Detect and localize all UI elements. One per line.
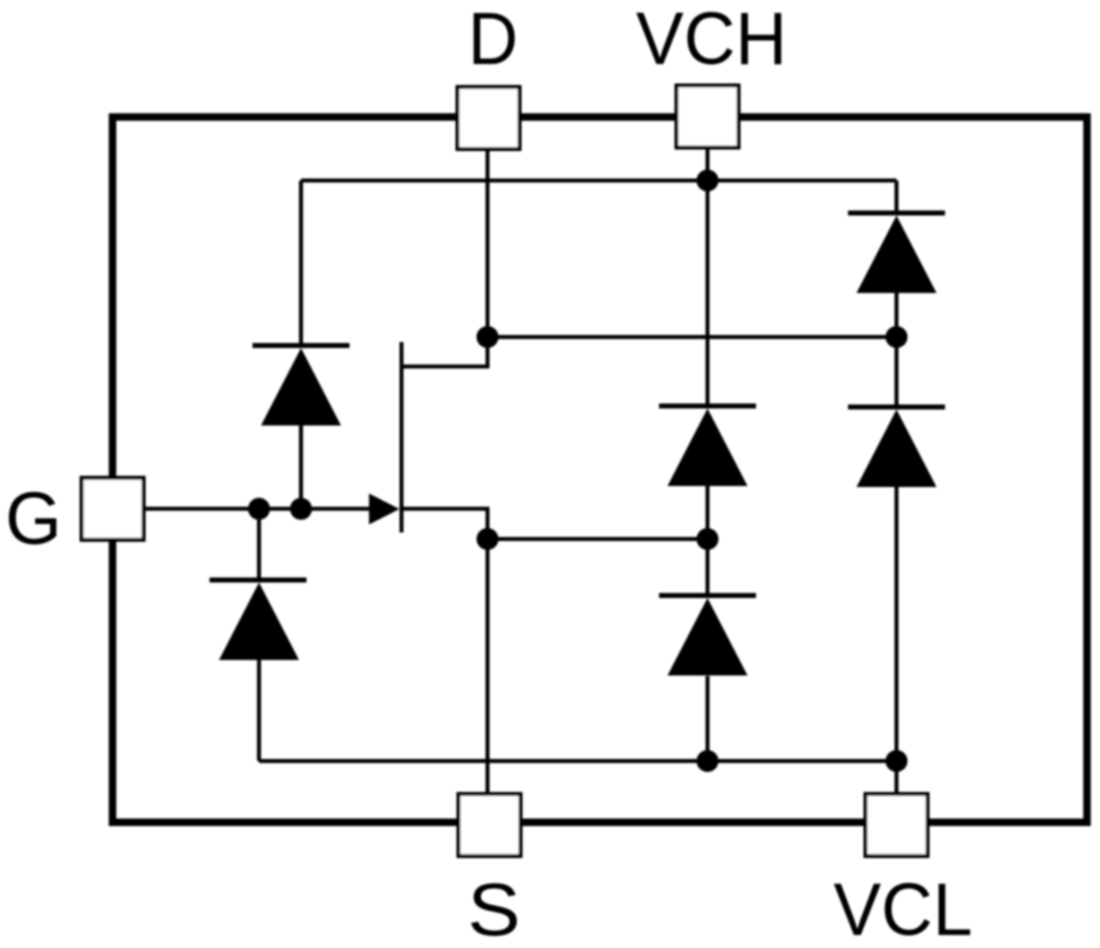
wire: source node down to diode D4 cathode [706,539,710,596]
wire: diode D6 anode down to VCL rail and VCL pin [895,487,899,794]
diode D3 (source to VCH, upper) [659,406,756,486]
wire: D pin stub down to drain node [486,149,490,337]
wire: VCH rail down to diode D5 cathode (right drop) [895,181,899,214]
svg-text:VCH: VCH [636,0,787,80]
wire: drain horizontal rail y=337 [488,335,897,339]
wire: diode D5 anode down through node to diode D6 cathode [895,290,899,407]
transistor Q1 gate arrow [369,494,400,525]
wire: VCH center drop to diode D3 cathode [706,181,710,407]
transistor Q1 source connection [402,509,488,539]
wire: diode D1 anode down to gate rail [299,426,303,509]
node: source junction right [697,528,719,550]
wire: VCH rail down to diode D1 cathode (left drop) [299,181,303,346]
node: drain junction right [886,326,908,348]
wire: diode D4 anode down to VCL rail [706,676,710,761]
pin pad S [459,794,521,856]
diode D4 (VCL to source, lower) [659,596,756,676]
node: VCL junction center [697,750,719,772]
svg-text:VCL: VCL [834,868,973,948]
diode D2 (VCL to gate) [210,580,307,660]
diode D1 (gate to VCH) [253,346,350,426]
svg-text:D: D [468,0,518,80]
node: gate junction left [248,498,270,520]
wire: VCH pin stub down to node [706,148,710,181]
wire: gate rail down to diode D2 cathode [257,509,261,580]
pin pad D [458,87,520,149]
svg-text:S: S [468,869,521,948]
node: VCL junction right [886,750,908,772]
node: VCH junction [697,170,719,192]
node: gate junction right [290,498,312,520]
diode D6 (VCL to drain, right mid) [848,407,945,487]
wire: source node horizontal to center column [488,537,708,541]
diode D5 (drain to VCH, right top) [848,213,945,293]
wire: diode D2 anode down to VCL rail [257,660,261,762]
svg-text:G: G [5,477,62,560]
wire: VCL bottom rail y=761 [259,759,897,763]
pin pad VCH [677,86,739,148]
pin pad G [82,478,144,540]
transistor Q1 channel bar [400,342,404,533]
node: source junction left [477,528,499,550]
pin pad VCL [866,794,928,856]
wire: diode D3 anode down to source node [706,486,710,539]
transistor Q1 drain connection [402,337,488,367]
wire: VCH horizontal rail y=180 [301,179,897,183]
wire: S pin stub up to source node [486,539,490,794]
node: drain junction left [477,326,499,348]
wire: G pin to gate arrow [144,507,370,511]
IC outline (device boundary box) [113,117,1088,822]
